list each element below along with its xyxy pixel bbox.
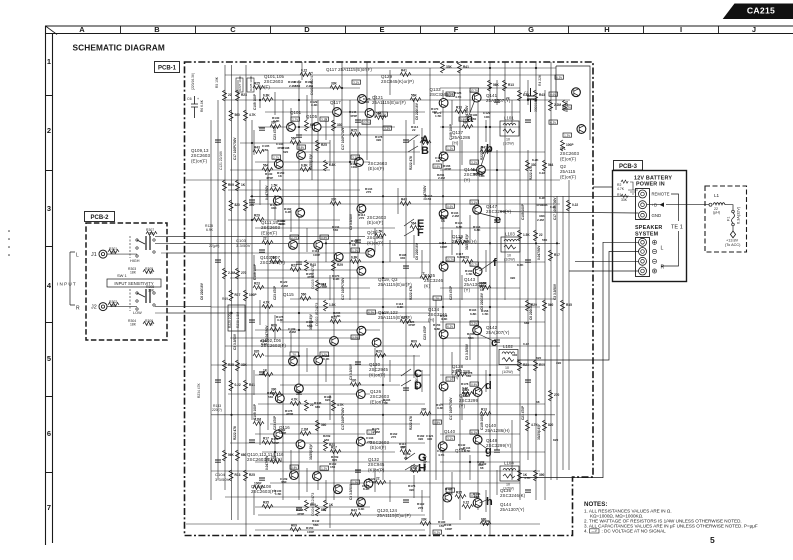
svg-text:22: 22 (263, 237, 267, 241)
svg-text:1.3V: 1.3V (447, 378, 453, 382)
svg-text:0.22: 0.22 (301, 69, 307, 73)
svg-text:33K: 33K (621, 198, 628, 202)
svg-text:R222 478: R222 478 (409, 286, 413, 300)
svg-text:56K: 56K (307, 324, 313, 328)
svg-text:0.047/50V: 0.047/50V (265, 325, 269, 340)
svg-text:L101: L101 (504, 116, 514, 121)
svg-text:R09: R09 (310, 503, 316, 507)
svg-text:3.2V: 3.2V (384, 127, 390, 131)
svg-text:560: 560 (268, 395, 273, 399)
svg-text:390: 390 (278, 222, 283, 226)
svg-text:C3 3.3/50V: C3 3.3/50V (465, 343, 469, 360)
svg-text:820: 820 (553, 438, 558, 442)
svg-text:6: 6 (47, 429, 51, 438)
svg-text:PCB-1: PCB-1 (158, 66, 177, 72)
svg-text:5: 5 (710, 535, 715, 545)
svg-text:270: 270 (271, 456, 277, 460)
svg-text:R227 100K: R227 100K (238, 75, 242, 91)
svg-text:(Y): (Y) (464, 287, 471, 292)
svg-text:3.3K: 3.3K (441, 317, 448, 321)
svg-text:(E)or(F): (E)or(F) (560, 174, 577, 179)
svg-text:6.8K: 6.8K (263, 94, 270, 98)
svg-text:0.8V: 0.8V (291, 466, 297, 470)
svg-text:1.3V: 1.3V (447, 147, 453, 151)
svg-text:6.3V: 6.3V (471, 431, 477, 435)
svg-text:220(?): 220(?) (212, 408, 222, 412)
svg-text:C109 100P: C109 100P (253, 403, 257, 420)
svg-text:3.3K: 3.3K (358, 507, 365, 511)
svg-text:C23 470P: C23 470P (273, 415, 277, 430)
svg-text:C109 100P: C109 100P (253, 93, 257, 110)
svg-text:2.2M: 2.2M (537, 218, 544, 222)
svg-text:7: 7 (47, 503, 51, 512)
svg-text:4.7K: 4.7K (401, 316, 408, 320)
svg-text:8.2K: 8.2K (323, 357, 330, 361)
svg-text:C17 100P/700V: C17 100P/700V (233, 137, 237, 160)
svg-text:―V: ―V (592, 529, 598, 533)
svg-text:C17 100P/700V: C17 100P/700V (341, 127, 345, 150)
svg-text:GND: GND (652, 213, 662, 218)
svg-text:f: f (493, 257, 497, 269)
svg-text:POWER IN: POWER IN (636, 182, 665, 188)
svg-text:10K: 10K (479, 174, 485, 178)
svg-text:R222 478: R222 478 (233, 426, 237, 440)
svg-text:3.2V: 3.2V (353, 81, 359, 85)
svg-text:C23 470P: C23 470P (423, 325, 427, 340)
svg-text:6.3V: 6.3V (556, 76, 562, 80)
svg-text:0.22: 0.22 (462, 386, 468, 390)
svg-text:C6 220/16V: C6 220/16V (415, 102, 419, 120)
svg-text:3.2V: 3.2V (352, 156, 358, 160)
svg-text:0.22: 0.22 (539, 171, 545, 175)
svg-text:2.7V: 2.7V (273, 156, 279, 160)
svg-text:560: 560 (333, 228, 338, 232)
svg-text:22: 22 (506, 96, 510, 100)
svg-text:C6 220/16V: C6 220/16V (200, 282, 204, 300)
svg-text:8.2K: 8.2K (539, 196, 546, 200)
svg-text:56K: 56K (493, 83, 500, 87)
svg-text:0.22: 0.22 (446, 491, 452, 495)
svg-text:3.2V: 3.2V (321, 118, 327, 122)
svg-text:68: 68 (536, 400, 540, 404)
svg-text:R6 6.8K: R6 6.8K (200, 99, 204, 112)
svg-text:(Y): (Y) (459, 403, 466, 408)
svg-text:R17: R17 (235, 293, 241, 297)
svg-text:150: 150 (426, 197, 431, 201)
svg-text:R13: R13 (235, 473, 241, 477)
svg-text:TE 1: TE 1 (671, 225, 683, 231)
svg-text:22(μH): 22(μH) (209, 244, 219, 248)
svg-text:330: 330 (427, 437, 432, 441)
svg-text:(1/2W): (1/2W) (503, 142, 514, 146)
svg-text:L: L (661, 246, 664, 252)
svg-text:560: 560 (466, 374, 471, 378)
svg-text:R29: R29 (376, 350, 382, 354)
svg-text:R222 478: R222 478 (409, 416, 413, 430)
svg-text:R09: R09 (411, 340, 417, 344)
svg-text:2.7V: 2.7V (291, 236, 297, 240)
svg-text:3.3/50V: 3.3/50V (215, 477, 230, 482)
svg-text:33/25(16)V: 33/25(16)V (309, 153, 313, 170)
svg-text:1.5K: 1.5K (466, 272, 473, 276)
svg-text:0.8V: 0.8V (321, 236, 327, 240)
svg-text:68: 68 (441, 217, 445, 221)
svg-text:33/25(16)V: 33/25(16)V (423, 453, 427, 470)
svg-text:1.5K: 1.5K (329, 303, 336, 307)
svg-text:C6: C6 (187, 97, 192, 101)
svg-text:470P: 470P (266, 176, 273, 180)
svg-text:390: 390 (409, 488, 414, 492)
svg-text:(F): (F) (264, 84, 270, 89)
svg-text:820: 820 (235, 203, 241, 207)
svg-text:22: 22 (404, 456, 408, 460)
svg-text:820: 820 (325, 398, 330, 402)
svg-text:R17: R17 (554, 253, 560, 257)
svg-text:C109 100P: C109 100P (521, 203, 525, 220)
svg-text:560: 560 (542, 238, 547, 242)
svg-text:C3 3.3/50V: C3 3.3/50V (553, 283, 557, 300)
svg-text:0.22: 0.22 (572, 203, 578, 207)
svg-text:G: G (528, 25, 534, 34)
svg-text:C3 3.3/50V: C3 3.3/50V (233, 333, 237, 350)
svg-text:0.8V: 0.8V (434, 165, 440, 169)
svg-text:C6 220/16V: C6 220/16V (480, 292, 484, 310)
svg-text:C: C (230, 25, 236, 34)
svg-text:(1/2W): (1/2W) (502, 370, 513, 374)
svg-text:Q140: Q140 (444, 429, 456, 434)
svg-text:0.8V: 0.8V (471, 383, 477, 387)
svg-text:HIGH: HIGH (130, 259, 140, 263)
svg-text:8.2K: 8.2K (517, 263, 524, 267)
svg-text:2SC2603(F): 2SC2603(F) (260, 260, 285, 265)
svg-text:D102 IS2473: D102 IS2473 (314, 302, 319, 326)
svg-text:150: 150 (324, 438, 329, 442)
svg-text:R69: R69 (222, 297, 228, 301)
svg-text:8.2K: 8.2K (463, 391, 470, 395)
svg-text:3.2V: 3.2V (380, 113, 386, 117)
svg-text:1.3V: 1.3V (564, 134, 570, 138)
svg-text:470P: 470P (408, 323, 415, 327)
svg-text:C17 100P/700V: C17 100P/700V (449, 397, 453, 420)
svg-text:R09: R09 (539, 363, 545, 367)
svg-text:13.7V: 13.7V (470, 89, 478, 93)
svg-text:(220/16.3V): (220/16.3V) (191, 73, 195, 90)
svg-text:13.7V: 13.7V (446, 93, 454, 97)
svg-text:4.: 4. (584, 529, 588, 534)
svg-text:1.5K: 1.5K (271, 184, 278, 188)
svg-text:1.5K: 1.5K (369, 480, 376, 484)
svg-text:(Y): (Y) (464, 177, 471, 182)
svg-text:1: 1 (47, 57, 51, 66)
svg-text:1.3V: 1.3V (352, 249, 358, 253)
svg-text:C23 470P: C23 470P (449, 285, 453, 300)
svg-text:270: 270 (241, 271, 247, 275)
svg-text:56K: 56K (313, 523, 319, 527)
svg-text:(1/2W): (1/2W) (504, 258, 515, 262)
svg-text:H: H (604, 25, 609, 34)
svg-text:R29: R29 (337, 263, 343, 267)
svg-text:0.6V: 0.6V (447, 205, 453, 209)
svg-text:390: 390 (418, 437, 423, 441)
svg-text:560: 560 (291, 137, 297, 141)
svg-text:56K: 56K (474, 495, 480, 499)
svg-text:680: 680 (241, 453, 247, 457)
svg-text:F1: F1 (727, 217, 731, 221)
svg-text:390: 390 (556, 361, 561, 365)
svg-text:SCHEMATIC DIAGRAM: SCHEMATIC DIAGRAM (73, 43, 165, 53)
svg-text:C3 3.3/50V: C3 3.3/50V (349, 483, 353, 500)
svg-text:R: R (661, 265, 665, 271)
svg-text:C23 470P: C23 470P (273, 125, 277, 140)
svg-text:R229 100K: R229 100K (228, 311, 232, 328)
svg-text:1.5K: 1.5K (464, 449, 471, 453)
svg-text:10K: 10K (484, 115, 490, 119)
svg-text:(E)or(F): (E)or(F) (368, 166, 385, 171)
svg-text:4.7K: 4.7K (263, 301, 270, 305)
svg-text:270: 270 (367, 440, 372, 444)
svg-text:C1: C1 (524, 91, 529, 95)
svg-text:8.2K: 8.2K (285, 210, 292, 214)
svg-text:820: 820 (254, 350, 260, 354)
svg-text:390: 390 (510, 276, 515, 280)
svg-text:(K)or(P): (K)or(P) (367, 240, 384, 245)
svg-text:R13: R13 (508, 83, 514, 87)
svg-text:1.5K: 1.5K (275, 492, 282, 496)
svg-text:820: 820 (548, 423, 554, 427)
svg-text:820: 820 (473, 172, 478, 176)
svg-text:7V: 7V (292, 353, 296, 357)
svg-text:R: R (76, 306, 80, 312)
svg-text:0.22: 0.22 (261, 342, 267, 346)
svg-text:560: 560 (548, 303, 554, 307)
svg-text:0.047/50V: 0.047/50V (265, 455, 269, 470)
svg-text:(1/2W): (1/2W) (503, 487, 514, 491)
svg-text:6.3V: 6.3V (447, 325, 453, 329)
svg-text:100P: 100P (249, 293, 257, 297)
svg-text:100P: 100P (320, 285, 327, 289)
svg-text:25A(307(Y): 25A(307(Y) (486, 330, 510, 335)
svg-text:R13: R13 (456, 106, 462, 110)
svg-text:4.7K: 4.7K (524, 476, 531, 480)
svg-text:18K: 18K (130, 322, 137, 326)
svg-text:6.8K: 6.8K (329, 163, 336, 167)
svg-text:3.3K: 3.3K (437, 406, 444, 410)
svg-text:2SC2603(F): 2SC2603(F) (251, 489, 276, 494)
svg-text:33K: 33K (281, 480, 287, 484)
svg-text:R35: R35 (566, 303, 572, 307)
svg-text:22: 22 (412, 128, 416, 132)
svg-text:820: 820 (321, 508, 327, 512)
svg-text:0.047/50V: 0.047/50V (465, 105, 469, 120)
svg-text:1K: 1K (329, 503, 334, 507)
svg-text:J2: J2 (91, 305, 97, 311)
svg-text:270: 270 (418, 506, 423, 510)
svg-text:R43: R43 (310, 263, 316, 267)
svg-text:(E)or(F): (E)or(F) (560, 156, 577, 161)
svg-text:6.8K: 6.8K (434, 327, 441, 331)
svg-text:100P: 100P (313, 253, 320, 257)
svg-text:3.3K: 3.3K (277, 318, 284, 322)
svg-text:R29: R29 (463, 256, 469, 260)
svg-text:25A1115(E)or(F): 25A1115(E)or(F) (372, 100, 406, 105)
svg-text:25A1286(H): 25A1286(H) (485, 428, 510, 433)
svg-text:R41: R41 (249, 383, 255, 387)
svg-text:R23: R23 (329, 443, 335, 447)
svg-text:100P: 100P (254, 482, 262, 486)
svg-text:100P: 100P (351, 165, 358, 169)
svg-text:33/25(16)V: 33/25(16)V (309, 443, 313, 460)
svg-text:470P: 470P (444, 167, 451, 171)
svg-text:C17 100P/700V: C17 100P/700V (341, 407, 345, 430)
svg-text:270: 270 (359, 216, 364, 220)
svg-text:4.7K: 4.7K (455, 95, 462, 99)
svg-text:2: 2 (47, 126, 51, 135)
svg-text:(K)or(P): (K)or(P) (369, 372, 386, 377)
svg-text:R09: R09 (228, 183, 234, 187)
svg-text:2.2M: 2.2M (228, 271, 235, 275)
svg-text:33/25(16)V: 33/25(16)V (537, 423, 541, 440)
svg-text:330: 330 (512, 353, 517, 357)
svg-text:J1: J1 (91, 252, 97, 258)
svg-text:d: d (485, 380, 492, 392)
svg-text:4.7K: 4.7K (438, 453, 445, 457)
svg-text:R222 478: R222 478 (480, 146, 484, 160)
svg-text:R3 224: R3 224 (565, 101, 569, 112)
svg-text:6.3A(32V): 6.3A(32V) (737, 206, 741, 224)
svg-text:33/25(16)V: 33/25(16)V (465, 233, 469, 250)
svg-text:R222 478: R222 478 (529, 166, 533, 180)
svg-text:2.2M: 2.2M (438, 176, 445, 180)
svg-text:5: 5 (47, 354, 51, 363)
svg-text:6.3V: 6.3V (368, 311, 374, 315)
svg-text:2SC945(K)or(P): 2SC945(K)or(P) (381, 79, 414, 84)
svg-text:R23: R23 (254, 282, 260, 286)
svg-text:560: 560 (235, 113, 241, 117)
svg-text:R41: R41 (463, 65, 469, 69)
svg-text:PCB-3: PCB-3 (619, 164, 638, 170)
svg-text:25A1115(E)or(F): 25A1115(E)or(F) (378, 282, 412, 287)
svg-text:3: 3 (47, 204, 51, 213)
svg-text:h: h (486, 496, 493, 508)
svg-text:Q101: Q101 (290, 110, 302, 115)
svg-text:6.8K: 6.8K (456, 225, 463, 229)
svg-text:LOW: LOW (133, 311, 142, 315)
svg-text:470P: 470P (286, 412, 293, 416)
svg-text:39K: 39K (148, 288, 155, 292)
svg-text:Q117: Q117 (330, 100, 341, 105)
svg-text:22: 22 (376, 477, 380, 481)
svg-text:3.3K: 3.3K (311, 103, 318, 107)
svg-text:330: 330 (400, 445, 405, 449)
svg-text:R23: R23 (523, 363, 529, 367)
svg-text:6.9K: 6.9K (206, 228, 214, 232)
svg-text:R1: R1 (617, 193, 621, 197)
svg-text:4.7K: 4.7K (337, 403, 344, 407)
svg-text:33K: 33K (271, 206, 277, 210)
svg-text:470P: 470P (297, 512, 304, 516)
svg-text:c: c (491, 337, 497, 349)
svg-text:L103: L103 (505, 232, 515, 237)
svg-text:2.7V: 2.7V (352, 336, 358, 340)
svg-text:2.2M: 2.2M (452, 214, 459, 218)
svg-text:3.3/50V: 3.3/50V (236, 243, 251, 248)
svg-text:SYSTEM: SYSTEM (635, 232, 659, 238)
svg-text:1K: 1K (241, 183, 246, 187)
svg-text:R25: R25 (254, 82, 260, 86)
svg-text:B: B (154, 25, 160, 34)
svg-text:150: 150 (263, 148, 268, 152)
svg-text:22: 22 (228, 93, 232, 97)
svg-text:R222 478: R222 478 (409, 156, 413, 170)
svg-text:13.7V: 13.7V (362, 121, 370, 125)
svg-text:22: 22 (421, 272, 425, 276)
svg-text:CA215: CA215 (747, 6, 775, 16)
svg-text:33K: 33K (421, 518, 428, 522)
svg-text:R35: R35 (228, 363, 234, 367)
svg-text:D: D (304, 25, 310, 34)
svg-text:56K: 56K (228, 453, 235, 457)
svg-text:33K: 33K (331, 82, 338, 86)
svg-text:R43: R43 (401, 198, 407, 202)
svg-text:2.2M: 2.2M (281, 284, 288, 288)
svg-text:C109 100P: C109 100P (253, 263, 257, 280)
svg-text:100P: 100P (445, 527, 452, 531)
svg-text:18K: 18K (130, 270, 137, 274)
svg-text:(μH): (μH) (713, 211, 720, 215)
svg-text:820: 820 (456, 369, 462, 373)
svg-text:+: + (197, 97, 199, 101)
svg-text:B: B (421, 145, 429, 157)
svg-text:680: 680 (524, 321, 529, 325)
svg-text:13.7V: 13.7V (470, 263, 478, 267)
svg-text:470P: 470P (307, 275, 314, 279)
svg-text:564: 564 (263, 164, 269, 168)
svg-text:3.2V: 3.2V (471, 201, 477, 205)
svg-text:8.2K: 8.2K (532, 158, 539, 162)
svg-text:R17: R17 (263, 437, 269, 441)
svg-text:C121 22/16V: C121 22/16V (219, 150, 223, 170)
svg-text:2SC3299(Y): 2SC3299(Y) (486, 209, 512, 214)
svg-text:R25: R25 (421, 137, 427, 141)
svg-text:0.047/50V: 0.047/50V (537, 245, 541, 260)
svg-text:3.2V: 3.2V (471, 161, 477, 165)
svg-text:820: 820 (283, 150, 288, 154)
svg-text:0.047/50V: 0.047/50V (265, 185, 269, 200)
svg-text:56K: 56K (411, 94, 418, 98)
svg-text:6.3V: 6.3V (434, 531, 440, 535)
svg-text:330: 330 (331, 198, 337, 202)
svg-text:1.5K: 1.5K (523, 233, 530, 237)
svg-text:6.8K: 6.8K (470, 312, 477, 316)
svg-text:4.7K: 4.7K (291, 398, 298, 402)
svg-text:4.7K: 4.7K (617, 187, 625, 191)
svg-text:6.8K: 6.8K (457, 255, 464, 259)
svg-text:7V: 7V (435, 297, 439, 301)
svg-text:C17 100P/700V: C17 100P/700V (341, 277, 345, 300)
svg-text:Q115: Q115 (283, 292, 294, 297)
svg-text:6.8K: 6.8K (474, 228, 481, 232)
svg-text:390: 390 (376, 138, 381, 142)
svg-text:150: 150 (330, 465, 335, 469)
svg-text:(E)or(F): (E)or(F) (370, 445, 387, 450)
svg-text:L1: L1 (714, 193, 720, 198)
svg-text:3300/16(4): 3300/16(4) (534, 97, 538, 112)
svg-text:680: 680 (295, 84, 300, 88)
svg-text:2.2M: 2.2M (301, 428, 308, 432)
svg-text:390: 390 (249, 203, 255, 207)
svg-text:470P: 470P (272, 441, 279, 445)
svg-text:33K: 33K (241, 363, 248, 367)
